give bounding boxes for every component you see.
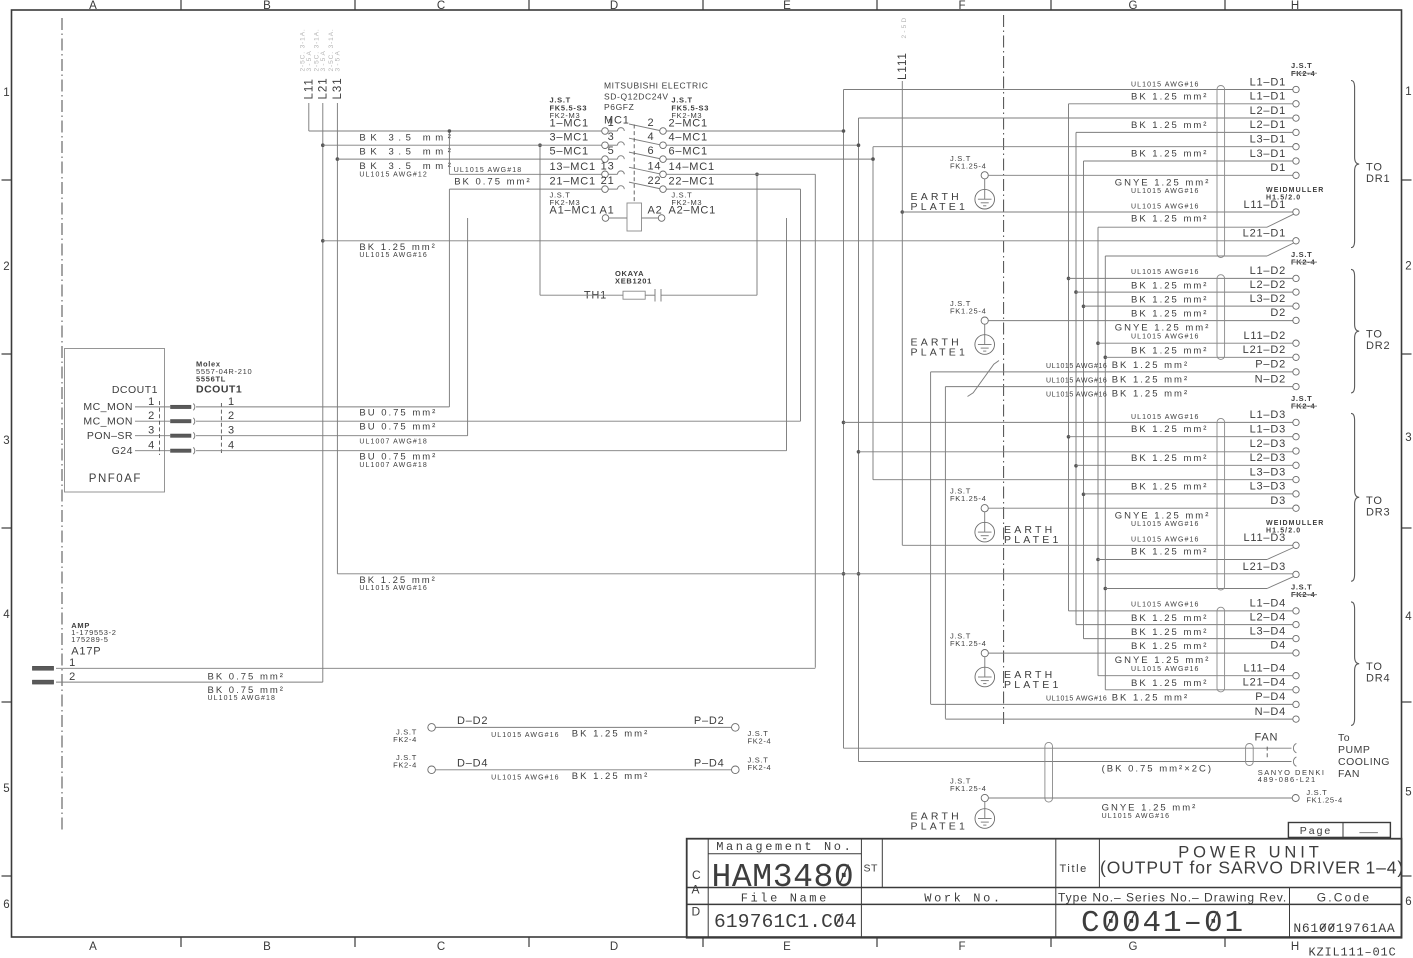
title block: [687, 839, 1402, 938]
svg-text:L3–D2: L3–D2: [1250, 293, 1286, 305]
wire L2-D1 feed: [859, 117, 1293, 119]
wire MC_MON pin1 (BU 0.75): [196, 406, 449, 408]
wire chain L3 drivers: [1083, 161, 1085, 639]
panel boundary line right (dash-dot): [1003, 15, 1005, 726]
jumper wire D-D2 to P-D2: [393, 715, 771, 746]
svg-text:PLATE1: PLATE1: [911, 821, 969, 833]
terminal L2-D3: [1250, 438, 1300, 454]
wire L11-D3 feed from L111: [902, 544, 1293, 546]
svg-text:D3: D3: [1270, 495, 1286, 507]
wire chain P drivers: [930, 372, 932, 704]
svg-text:UL1015 AWG#16: UL1015 AWG#16: [359, 585, 428, 592]
svg-text:BK 1.25 mm²: BK 1.25 mm²: [1131, 641, 1208, 652]
wire L1-D2 link: [1069, 277, 1293, 279]
svg-text:H1.5/2.0: H1.5/2.0: [1266, 527, 1301, 534]
wire L21-D3 feed from L31 bus (BK 1.25): [337, 573, 1292, 575]
svg-text:3: 3: [3, 435, 9, 447]
contact MC1 poles 13-14: [550, 160, 715, 177]
wire phase S chain (4-MC1 to DR1/DR3/FAN): [858, 118, 860, 762]
svg-text:PLATE1: PLATE1: [911, 201, 969, 213]
svg-text:22–MC1: 22–MC1: [669, 176, 715, 188]
svg-text:3-5A: 3-5A: [306, 49, 313, 72]
svg-text:2: 2: [1405, 261, 1411, 273]
wire L21-D1 link: [1105, 255, 1267, 257]
svg-text:DCOUT1: DCOUT1: [196, 384, 242, 396]
svg-text:6–MC1: 6–MC1: [669, 146, 708, 158]
svg-text:UL1015 AWG#16: UL1015 AWG#16: [1131, 204, 1200, 211]
svg-text:L3–D1: L3–D1: [1250, 134, 1286, 146]
svg-text:FK2-4: FK2-4: [393, 735, 417, 744]
svg-text:G: G: [1129, 0, 1138, 12]
svg-text:GNYE 1.25 mm²: GNYE 1.25 mm²: [1115, 655, 1211, 666]
svg-text:5: 5: [1405, 787, 1411, 799]
ground symbol EARTH PLATE1 #1: [911, 179, 995, 213]
wire L111 bus: [901, 81, 903, 545]
terminal L3-D1: [1250, 134, 1300, 150]
svg-text:2: 2: [648, 117, 655, 129]
wire GNYE D3: [988, 507, 1293, 509]
wire TH1 left to 3-MC1: [539, 145, 541, 295]
cable bundle fan right: [1246, 744, 1254, 766]
svg-text:L21–D1: L21–D1: [1243, 228, 1286, 240]
wire L2-D3 feed: [859, 451, 1293, 453]
wire G24 pin4 to coil A2 (BU 0.75): [196, 450, 787, 452]
pin 2 DCOUT1 (MC_MON): [83, 410, 235, 427]
contact MC1 poles 3-4: [550, 131, 708, 148]
svg-text:L2–D3: L2–D3: [1250, 438, 1286, 450]
svg-text:UL1015 AWG#16: UL1015 AWG#16: [1131, 601, 1200, 608]
wire chain L1 drivers: [1068, 104, 1070, 611]
connector mating line (dashed): [220, 403, 222, 453]
wire L1-D3 link: [1069, 436, 1293, 438]
contactor MC1 coil: [550, 203, 717, 231]
svg-text:Management No.: Management No.: [716, 840, 853, 854]
brace TO DR4: [1351, 602, 1390, 726]
svg-text:C0041–01: C0041–01: [1081, 906, 1245, 941]
wire L21-D2 link: [1105, 356, 1293, 358]
wire P-D2 link: [931, 371, 1293, 373]
svg-text:BK 0.75 mm²: BK 0.75 mm²: [208, 685, 285, 696]
contact MC1 poles 1-2: [550, 117, 708, 134]
svg-text:UL1007 AWG#18: UL1007 AWG#18: [359, 462, 428, 469]
svg-text:E: E: [783, 0, 791, 12]
svg-text:BK 1.25 mm²: BK 1.25 mm²: [359, 575, 436, 586]
svg-text:H: H: [1291, 941, 1299, 953]
svg-text:21–MC1: 21–MC1: [550, 176, 596, 188]
svg-text:D–D2: D–D2: [457, 715, 488, 727]
svg-text:UL1015 AWG#16: UL1015 AWG#16: [1131, 334, 1200, 341]
svg-text:L1–D3: L1–D3: [1250, 424, 1286, 436]
terminal L1-D2: [1250, 265, 1300, 281]
svg-text:File Name: File Name: [741, 891, 829, 905]
svg-text:DR3: DR3: [1366, 506, 1390, 518]
svg-text:L3–D3: L3–D3: [1250, 481, 1286, 493]
terminal D4: [1270, 640, 1299, 656]
svg-text:N–D2: N–D2: [1255, 373, 1286, 385]
node L111 label: [897, 16, 909, 80]
terminal J.S.T FK1.25-4 fan earth: [1292, 788, 1343, 805]
svg-text:BK 1.25 mm²: BK 1.25 mm²: [1131, 453, 1208, 464]
svg-text:14: 14: [648, 160, 662, 172]
svg-text:PLATE1: PLATE1: [1004, 534, 1062, 546]
svg-text:BK 1.25 mm²: BK 1.25 mm²: [1131, 613, 1208, 624]
connector housing edge (dashed): [159, 401, 161, 455]
wire break mark P-D2/N-D2: [968, 361, 1000, 397]
svg-text:1: 1: [69, 657, 76, 669]
svg-text:4: 4: [148, 440, 155, 452]
svg-text:2: 2: [228, 410, 235, 422]
svg-text:2-5D: 2-5D: [901, 16, 908, 39]
cable bundle DR3: [1217, 418, 1225, 590]
svg-text:175289-5: 175289-5: [71, 635, 108, 644]
wire L11-D1 feed from L111: [902, 211, 1293, 213]
terminal L21-D2: [1243, 344, 1300, 360]
svg-text:1: 1: [608, 117, 615, 129]
svg-text:6: 6: [648, 145, 655, 157]
svg-text:3: 3: [608, 131, 615, 143]
svg-text:P6GFZ: P6GFZ: [604, 102, 634, 112]
svg-text:PON–SR: PON–SR: [87, 430, 133, 442]
svg-text:5: 5: [3, 783, 9, 795]
svg-text:H: H: [1291, 0, 1299, 12]
wire A17P pin2 to L21 (BK 0.75): [56, 681, 323, 683]
svg-text:BU 0.75 mm²: BU 0.75 mm²: [359, 422, 437, 433]
svg-text:GNYE 1.25 mm²: GNYE 1.25 mm²: [1115, 323, 1211, 334]
svg-text:D: D: [610, 941, 618, 953]
svg-text:BK 1.25 mm²: BK 1.25 mm²: [572, 729, 649, 740]
svg-text:BK 1.25 mm²: BK 1.25 mm²: [1112, 375, 1189, 386]
svg-text:3–MC1: 3–MC1: [550, 132, 589, 144]
svg-text:G24: G24: [112, 445, 133, 457]
brace TO DR1: [1351, 81, 1390, 248]
svg-text:P–D4: P–D4: [694, 757, 725, 769]
svg-text:D: D: [692, 905, 701, 919]
pin 4 DCOUT1 (G24): [112, 440, 235, 457]
svg-text:BU 0.75 mm²: BU 0.75 mm²: [359, 451, 437, 462]
svg-text:L2–D1: L2–D1: [1250, 119, 1286, 131]
svg-text:L11–D2: L11–D2: [1243, 330, 1286, 342]
svg-text:UL1015 AWG#16: UL1015 AWG#16: [1131, 188, 1200, 195]
wire L21-D3 link: [1105, 588, 1267, 590]
svg-text:N610019761AA: N610019761AA: [1293, 921, 1395, 936]
svg-text:A: A: [692, 883, 700, 897]
ground symbol EARTH PLATE1 #5: [911, 802, 995, 833]
svg-text:XEB1201: XEB1201: [615, 277, 652, 286]
earth plate terminal 5 (J.S.T FK1.25-4): [950, 777, 988, 802]
connector FAN: [1255, 732, 1326, 784]
svg-text:L21–D4: L21–D4: [1243, 677, 1286, 689]
ground symbol EARTH PLATE1 #3: [975, 512, 1062, 546]
svg-text:4–MC1: 4–MC1: [669, 132, 708, 144]
wire GNYE D2: [988, 320, 1293, 322]
svg-text:DR1: DR1: [1366, 173, 1390, 185]
wire FAN feed 1 (BK 0.75 x2C): [844, 747, 1292, 749]
svg-text:A2: A2: [648, 205, 663, 217]
wire L3-D3 feed: [873, 479, 1293, 481]
svg-text:UL1015 AWG#16: UL1015 AWG#16: [491, 775, 560, 782]
ground symbol EARTH PLATE1 #2: [911, 324, 995, 358]
terminal P-D2: [1255, 359, 1299, 375]
svg-text:L1–D2: L1–D2: [1250, 265, 1286, 277]
svg-text:14–MC1: 14–MC1: [669, 161, 715, 173]
contactor MC1 mechanical link (dashed): [633, 125, 635, 204]
svg-text:BK 1.25 mm²: BK 1.25 mm²: [1112, 360, 1189, 371]
cable bundle fan left: [1045, 742, 1053, 802]
wire PON-SR pin3 to coil A1: [196, 435, 468, 437]
svg-text:3: 3: [228, 425, 235, 437]
terminal D3: [1270, 495, 1299, 511]
svg-text:PNF0AF: PNF0AF: [89, 473, 142, 485]
svg-text:P–D4: P–D4: [1255, 691, 1286, 703]
terminal L21-D1: [1243, 228, 1300, 244]
wire labels DR3: [1115, 414, 1211, 557]
wire chain L2 drivers: [1075, 132, 1077, 624]
svg-text:BK 3.5 mm²: BK 3.5 mm²: [359, 132, 455, 143]
svg-text:UL1015 AWG#16: UL1015 AWG#16: [1131, 81, 1200, 88]
terminal N-D4: [1255, 706, 1300, 722]
wire 4-MC1 output: [666, 144, 858, 146]
svg-text:E: E: [783, 941, 791, 953]
svg-text:UL1015 AWG#16: UL1015 AWG#16: [1131, 521, 1200, 528]
svg-text:D1: D1: [1270, 162, 1286, 174]
connector PNF0AF outline: [65, 349, 165, 493]
pin 1 DCOUT1 (MC_MON): [83, 396, 235, 413]
terminal L11-D2: [1243, 330, 1299, 346]
terminal D1: [1270, 162, 1299, 178]
wire L1-D1 link: [1069, 103, 1293, 105]
svg-text:TO: TO: [1366, 661, 1383, 673]
wire N-D4 link: [945, 718, 1292, 720]
wire L3-D1 link: [1084, 160, 1293, 162]
svg-text:L11: L11: [304, 78, 316, 99]
wire L2-D1 link: [1076, 131, 1293, 133]
ground symbol EARTH PLATE1 #4: [975, 657, 1062, 691]
cable bundle DR2: [1217, 275, 1225, 360]
svg-text:BK 3.5 mm²: BK 3.5 mm²: [359, 161, 455, 172]
slashed zeros overlay: [836, 865, 1335, 931]
svg-text:WEIDMULLER: WEIDMULLER: [1266, 520, 1324, 527]
svg-text:ST: ST: [864, 863, 879, 875]
wire 22-MC1 to MC_MON pin2: [666, 188, 800, 190]
cable bundle DR4: [1217, 607, 1225, 692]
wire L1-D3 feed: [844, 421, 1293, 423]
svg-text:(OUTPUT for SARVO DRIVER 1–4): (OUTPUT for SARVO DRIVER 1–4): [1100, 857, 1404, 877]
svg-text:A1–MC1: A1–MC1: [550, 205, 598, 217]
connector A17P (AMP): [71, 621, 116, 658]
svg-text:Work No.: Work No.: [924, 891, 1002, 905]
svg-text:1: 1: [228, 396, 235, 408]
svg-text:A1: A1: [599, 205, 614, 217]
brace TO DR2: [1351, 269, 1390, 393]
terminal L1-D1: [1250, 76, 1300, 92]
svg-text:L21: L21: [318, 77, 330, 99]
wire L21-D1 feed from L21 bus (BK 1.25): [323, 240, 1293, 242]
terminal L2-D4: [1250, 611, 1300, 627]
svg-text:2: 2: [148, 410, 155, 422]
svg-text:BK 1.25 mm²: BK 1.25 mm²: [1112, 693, 1189, 704]
svg-text:L11–D4: L11–D4: [1243, 663, 1286, 675]
svg-text:L3–D4: L3–D4: [1250, 625, 1286, 637]
svg-text:3-5A: 3-5A: [335, 49, 342, 72]
terminal L3-D1: [1250, 148, 1300, 164]
svg-text:FK1.25-4: FK1.25-4: [950, 494, 986, 503]
svg-text:BK 1.25 mm²: BK 1.25 mm²: [1131, 309, 1208, 320]
svg-text:BK 1.25 mm²: BK 1.25 mm²: [1131, 424, 1208, 435]
svg-text:BK 1.25 mm²: BK 1.25 mm²: [1131, 214, 1208, 225]
terminal L1-D3: [1250, 424, 1300, 440]
terminal L3-D3: [1250, 481, 1300, 497]
svg-text:PLATE1: PLATE1: [911, 347, 969, 359]
terminal L1-D1: [1250, 91, 1300, 107]
svg-text:C: C: [692, 868, 701, 882]
svg-text:Title: Title: [1060, 863, 1088, 875]
svg-text:1: 1: [1405, 86, 1411, 98]
svg-text:A: A: [89, 941, 97, 953]
earth plate terminal 1 (J.S.T FK1.25-4): [950, 154, 988, 179]
svg-text:MC_MON: MC_MON: [83, 401, 133, 413]
svg-text:BK 1.25 mm²: BK 1.25 mm²: [1131, 120, 1208, 131]
wire L21 bus: [322, 103, 324, 682]
svg-text:FK2-4: FK2-4: [748, 736, 772, 745]
wire GNYE D1: [988, 174, 1293, 176]
svg-text:P–D2: P–D2: [1255, 359, 1286, 371]
svg-text:1: 1: [148, 396, 155, 408]
terminal L3-D2: [1250, 293, 1300, 309]
svg-text:D–D4: D–D4: [457, 757, 488, 769]
wire L1-D1 feed: [844, 89, 1293, 91]
svg-text:L1–D1: L1–D1: [1250, 91, 1286, 103]
svg-text:BK 1.25 mm²: BK 1.25 mm²: [1131, 345, 1208, 356]
panel boundary line left (dash-dot): [61, 18, 63, 830]
svg-text:L3–D1: L3–D1: [1250, 148, 1286, 160]
svg-text:GNYE 1.25 mm²: GNYE 1.25 mm²: [1102, 803, 1198, 814]
svg-text:D2: D2: [1270, 307, 1286, 319]
svg-text:L21–D2: L21–D2: [1243, 344, 1286, 356]
wire labels DR1: [1115, 81, 1211, 224]
svg-text:To: To: [1338, 732, 1350, 744]
wire 2-MC1 output: [666, 130, 843, 132]
terminal L3-D4: [1250, 625, 1300, 641]
wire chain L11 drivers: [1097, 227, 1099, 676]
svg-text:UL1015 AWG#16: UL1015 AWG#16: [491, 732, 560, 739]
wire L3-D2 link: [1084, 305, 1293, 307]
svg-text:BK 1.25 mm²: BK 1.25 mm²: [572, 771, 649, 782]
svg-text:A: A: [89, 0, 97, 12]
svg-text:21: 21: [601, 175, 615, 187]
svg-text:BK 1.25 mm²: BK 1.25 mm²: [1131, 149, 1208, 160]
wire L2-D2 link: [1076, 291, 1293, 293]
svg-text:FK2-4: FK2-4: [393, 760, 417, 769]
svg-text:A2–MC1: A2–MC1: [669, 205, 717, 217]
wire A17P pin1 to 14-MC1 (BK 0.75): [56, 667, 815, 669]
pin 3 DCOUT1 (PON-SR): [87, 425, 235, 442]
svg-text:BK 1.25 mm²: BK 1.25 mm²: [1131, 91, 1208, 102]
svg-text:P–D2: P–D2: [694, 715, 725, 727]
svg-text:G.Code: G.Code: [1317, 890, 1372, 904]
svg-text:FAN: FAN: [1255, 732, 1279, 744]
wire MC_MON pin2 (BU 0.75): [196, 420, 801, 422]
svg-text:BK 3.5 mm²: BK 3.5 mm²: [359, 147, 455, 158]
wire L3-D3 link: [1084, 493, 1293, 495]
wire labels DR2: [1046, 269, 1210, 400]
terminal L1-D4: [1250, 598, 1300, 614]
svg-text:DR4: DR4: [1366, 673, 1390, 685]
svg-text:1–MC1: 1–MC1: [550, 118, 589, 130]
wire L2-D3 link: [1076, 464, 1293, 466]
svg-text:FK1.25-4: FK1.25-4: [950, 307, 986, 316]
svg-text:489-086-L21: 489-086-L21: [1258, 775, 1317, 784]
brace TO DR3: [1351, 413, 1390, 581]
terminal L3-D3: [1250, 466, 1300, 482]
svg-text:5–MC1: 5–MC1: [550, 146, 589, 158]
svg-text:F: F: [958, 0, 965, 12]
svg-text:N–D4: N–D4: [1255, 706, 1286, 718]
terminal L11-D3 (WEIDMULLER H1.5/2.0): [1243, 520, 1324, 549]
terminal L21-D3: [1243, 561, 1300, 577]
svg-text:UL1015 AWG#16: UL1015 AWG#16: [1046, 363, 1107, 370]
svg-text:6: 6: [1405, 896, 1411, 908]
svg-text:619761C1.C04: 619761C1.C04: [714, 911, 857, 933]
svg-text:3-5A: 3-5A: [320, 49, 327, 72]
svg-text:2: 2: [69, 671, 76, 683]
svg-text:4: 4: [3, 609, 10, 621]
svg-text:D4: D4: [1270, 640, 1286, 652]
wire chain L21 drivers: [1104, 256, 1106, 690]
svg-text:2: 2: [3, 261, 9, 273]
terminal L2-D1: [1250, 105, 1300, 121]
svg-text:UL1015 AWG#18: UL1015 AWG#18: [454, 167, 523, 174]
svg-text:DCOUT1: DCOUT1: [112, 384, 158, 396]
node L31 label: [328, 28, 344, 99]
svg-text:L2–D1: L2–D1: [1250, 105, 1286, 117]
svg-text:G: G: [1129, 941, 1138, 953]
wire L11-D3 link: [1098, 559, 1267, 561]
terminal L11-D4: [1243, 663, 1299, 679]
svg-text:KZIL111–01C: KZIL111–01C: [1309, 946, 1397, 958]
terminal L2-D2: [1250, 279, 1300, 295]
svg-text:L21–D3: L21–D3: [1243, 561, 1286, 573]
terminal L1-D3: [1250, 409, 1300, 425]
svg-text:22: 22: [648, 175, 662, 187]
wire L11-D4 link: [1098, 675, 1293, 677]
svg-text:PUMP: PUMP: [1338, 744, 1370, 756]
svg-text:BU 0.75 mm²: BU 0.75 mm²: [359, 407, 437, 418]
svg-text:UL1015 AWG#16: UL1015 AWG#16: [1131, 414, 1200, 421]
svg-text:FK2-4: FK2-4: [748, 763, 772, 772]
svg-text:FK1.25-4: FK1.25-4: [950, 639, 986, 648]
wire L2-D4 link: [1076, 624, 1293, 626]
wire L31 bus: [336, 103, 338, 574]
svg-text:L1–D4: L1–D4: [1250, 598, 1286, 610]
contactor MC1: [550, 81, 710, 208]
note To PUMP COOLING FAN: [1338, 732, 1390, 780]
svg-text:Type No.– Series No.– Drawing: Type No.– Series No.– Drawing Rev.: [1058, 890, 1287, 904]
svg-text:UL1015 AWG#16: UL1015 AWG#16: [1131, 269, 1200, 276]
pin 2 A17P: [32, 680, 53, 684]
svg-text:L2–D2: L2–D2: [1250, 279, 1286, 291]
svg-text:6: 6: [3, 899, 9, 911]
wire L11-D1 link: [1098, 226, 1267, 228]
wire chain N drivers: [944, 387, 946, 719]
svg-text:TO: TO: [1366, 495, 1383, 507]
wire L11-D2 link: [1098, 342, 1293, 344]
terminal L2-D1: [1250, 119, 1300, 135]
svg-text:L3–D3: L3–D3: [1250, 466, 1286, 478]
svg-text:D: D: [610, 0, 618, 12]
svg-text:F: F: [958, 941, 965, 953]
svg-text:4: 4: [648, 131, 655, 143]
earth plate terminal 4 (J.S.T FK1.25-4): [950, 632, 988, 657]
